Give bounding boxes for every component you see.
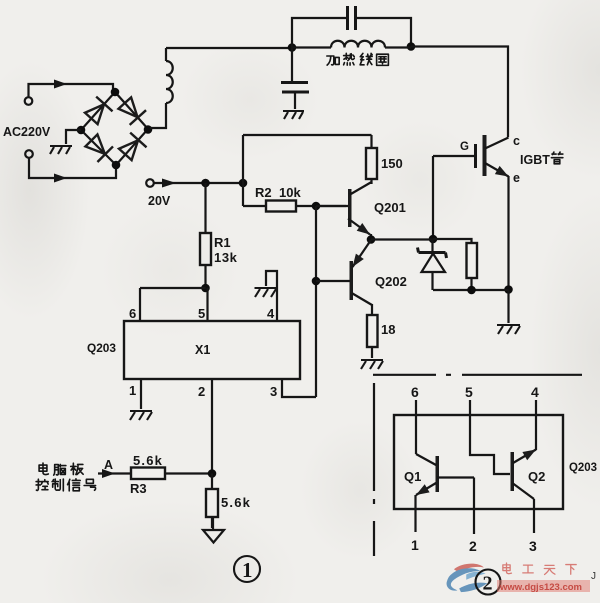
ground (pin1) <box>130 411 152 420</box>
label pin 6 <box>129 306 136 321</box>
wire <box>292 46 331 48</box>
inductor L1 (filter choke) <box>166 61 173 103</box>
wire <box>204 183 206 233</box>
svg-text:1: 1 <box>242 558 253 582</box>
dashed border top (Q203 detail) <box>373 374 582 376</box>
wire <box>211 517 213 528</box>
svg-text:c: c <box>513 134 520 148</box>
node bridge top <box>111 88 120 97</box>
wire pin6 <box>139 288 141 321</box>
node R1 top <box>201 179 210 188</box>
label pin 5 (pkg) <box>465 384 473 400</box>
diode D2 (top-right) <box>117 96 146 125</box>
node divider <box>208 469 217 478</box>
resistor Rg (gate) <box>467 243 478 290</box>
label pin 1 (pkg) <box>411 537 419 553</box>
svg-text:1: 1 <box>411 537 419 553</box>
watermark logo swirl <box>447 564 488 592</box>
svg-text:Q201: Q201 <box>374 200 406 215</box>
IC X1 box <box>124 321 300 379</box>
label Q203 (left of X1) <box>87 341 116 355</box>
node pin5 <box>201 284 210 293</box>
svg-text:6: 6 <box>129 306 136 321</box>
svg-text:Q1: Q1 <box>404 469 421 484</box>
ground (R18) <box>361 360 383 369</box>
arrow (current direction, neutral) <box>54 174 67 183</box>
wire <box>154 182 243 184</box>
diode D1 (top-left) <box>83 97 112 126</box>
resistor R4 5.6k <box>206 489 218 517</box>
label 5.6k (R3) <box>133 453 163 468</box>
arrow (20V feed) <box>162 179 176 188</box>
label pin 2 (pkg) <box>469 538 477 554</box>
label 5.6k (R4) <box>221 495 251 510</box>
wire base/pin3 vertical <box>315 206 317 397</box>
node bridge bottom <box>112 161 121 170</box>
wire <box>292 18 346 48</box>
label R1 <box>214 235 231 250</box>
wire <box>371 304 373 315</box>
svg-text:Q203: Q203 <box>569 460 597 474</box>
capacitor C2 (bus filter) <box>281 83 309 93</box>
transistor Q201 <box>316 182 372 239</box>
label AC220V <box>3 125 51 139</box>
node emitters <box>367 235 376 244</box>
svg-text:3: 3 <box>270 384 277 399</box>
label pin 5 <box>198 306 205 321</box>
wire riser to top rail <box>242 135 244 206</box>
wire pin2 (pkg) <box>473 478 475 535</box>
node 20V riser <box>239 179 248 188</box>
label pin 4 (pkg) <box>531 384 539 400</box>
svg-text:5.6k: 5.6k <box>221 495 251 510</box>
svg-text:R2: R2 <box>255 185 272 200</box>
wire <box>507 290 509 324</box>
diode D4 (bottom-right) <box>117 133 146 162</box>
svg-text:AC220V: AC220V <box>3 125 51 139</box>
wire <box>29 158 116 178</box>
wire pin1 <box>140 379 142 409</box>
svg-text:18: 18 <box>381 322 395 337</box>
svg-text:R3: R3 <box>130 481 147 496</box>
label 150 <box>381 156 403 171</box>
label 加热线圈 (heating coil) <box>327 53 389 65</box>
label 20V <box>148 194 171 208</box>
svg-text:3: 3 <box>529 538 537 554</box>
ground arrow (signal return) <box>203 517 224 543</box>
wire <box>357 18 411 46</box>
svg-text:IGBT: IGBT <box>520 153 550 167</box>
label A <box>104 458 113 472</box>
terminal T2 (AC neutral) <box>25 150 33 158</box>
stray mark J <box>591 571 596 582</box>
wire pin1 (pkg) <box>414 495 416 532</box>
wire pin6 (pkg) <box>415 400 417 454</box>
label c <box>513 134 520 148</box>
svg-text:6: 6 <box>411 384 419 400</box>
diode D3 (bottom-left) <box>84 133 113 162</box>
label R2 10k <box>255 185 301 200</box>
wire <box>433 289 509 291</box>
watermark url banner <box>497 580 590 593</box>
wire <box>204 265 206 288</box>
svg-text:A: A <box>104 458 113 472</box>
svg-text:2: 2 <box>198 384 205 399</box>
svg-text:www.dgjs123.com: www.dgjs123.com <box>499 582 582 593</box>
svg-text:5.6k: 5.6k <box>133 453 163 468</box>
svg-text:5: 5 <box>465 384 473 400</box>
transistor Q2 <box>511 450 537 500</box>
label Q2 <box>528 469 545 484</box>
label 18 <box>381 322 395 337</box>
wire top rail <box>243 134 372 136</box>
svg-text:150: 150 <box>381 156 403 171</box>
svg-text:2: 2 <box>483 573 493 595</box>
Q203 package box <box>394 415 563 509</box>
resistor R3 <box>131 468 165 480</box>
label pin 4 <box>267 306 275 321</box>
svg-text:J: J <box>591 571 596 582</box>
svg-text:1: 1 <box>129 383 136 398</box>
svg-text:Q203: Q203 <box>87 341 116 355</box>
label circled 2 <box>476 570 501 595</box>
wire <box>411 47 508 138</box>
capacitor C1 (resonant) <box>348 6 356 30</box>
svg-text:Q2: Q2 <box>528 469 545 484</box>
wire pin3 (pkg) <box>533 499 535 533</box>
label 13k <box>214 250 238 265</box>
node base Q202 <box>312 277 321 286</box>
bridge rectifier diamond wires <box>81 92 148 165</box>
ground (bridge negative) <box>50 146 72 154</box>
wire <box>433 239 472 243</box>
wire <box>211 474 213 490</box>
svg-text:4: 4 <box>267 306 275 321</box>
wire pin3 <box>282 379 316 397</box>
label IGBT管 <box>520 152 563 167</box>
label 控制信号 (control signal) <box>36 479 95 491</box>
label R3 <box>130 481 147 496</box>
svg-text:2: 2 <box>469 538 477 554</box>
wire <box>371 348 373 358</box>
label pin 3 <box>270 384 277 399</box>
wire <box>98 472 131 474</box>
wire <box>291 48 293 82</box>
node gate clamp <box>429 235 438 244</box>
wire IGBT emitter down <box>507 176 509 289</box>
transistor Q1 <box>416 454 474 495</box>
node bridge left <box>77 126 86 135</box>
wire <box>370 179 372 184</box>
svg-text:20V: 20V <box>148 194 171 208</box>
wire <box>29 84 114 97</box>
label Q201 <box>374 200 406 215</box>
wire <box>294 94 296 110</box>
terminal T1 (AC live) <box>25 97 33 105</box>
terminal 20V <box>146 179 154 187</box>
ground (pin4) <box>255 288 277 297</box>
svg-text:G: G <box>460 141 469 153</box>
node tank right <box>407 42 416 51</box>
label 电脑板 (computer board) <box>39 463 83 475</box>
ground (C2) <box>283 111 304 119</box>
zener diode VD (gate clamp) <box>418 239 447 291</box>
watermark 电工天下 <box>503 563 576 574</box>
svg-text:R1: R1 <box>214 235 231 250</box>
wire pin4 (pkg) <box>535 400 537 450</box>
label pin 1 <box>129 383 136 398</box>
wire pin6 loop <box>140 287 206 289</box>
svg-text:10k: 10k <box>279 185 301 200</box>
svg-text:Q202: Q202 <box>375 274 407 289</box>
arrow (current direction, live) <box>54 80 67 89</box>
label pin 3 (pkg) <box>529 538 537 554</box>
wire pin2 <box>211 379 213 474</box>
wire gate vertical <box>432 156 434 239</box>
resistor R18 <box>367 315 378 347</box>
resistor R2 <box>266 201 296 212</box>
svg-text:13k: 13k <box>214 250 238 265</box>
svg-text:5: 5 <box>198 306 205 321</box>
ground (IGBT emitter) <box>497 325 520 334</box>
wire <box>385 46 411 48</box>
label X1 <box>195 343 210 357</box>
svg-text:e: e <box>513 171 520 185</box>
svg-text:X1: X1 <box>195 343 210 357</box>
wire pin4 <box>266 271 277 321</box>
wire <box>296 205 346 207</box>
label pin 6 (pkg) <box>411 384 419 400</box>
label Q1 <box>404 469 421 484</box>
wire <box>166 47 292 49</box>
wire <box>243 205 266 207</box>
label Q203 (pkg) <box>569 460 597 474</box>
label e <box>513 171 520 185</box>
wire <box>165 472 212 474</box>
dashed border left (Q203 detail) <box>373 383 375 556</box>
label G <box>460 141 469 153</box>
node emitter junction <box>504 285 513 294</box>
inductor L2 (heating coil) <box>331 41 385 48</box>
svg-text:4: 4 <box>531 384 539 400</box>
wire <box>150 48 166 128</box>
label pin 2 <box>198 384 205 399</box>
label Q202 <box>375 274 407 289</box>
wire pin5 (pkg) with jog <box>470 400 510 474</box>
IGBT V1 <box>433 135 509 177</box>
wire <box>66 130 81 144</box>
label circled 1 <box>234 556 260 582</box>
transistor Q202 <box>316 240 372 305</box>
arrow (signal in) <box>102 469 115 478</box>
resistor R1 <box>200 233 211 265</box>
node bridge right <box>144 125 153 134</box>
wire <box>371 238 433 240</box>
wire <box>370 135 372 147</box>
wire pin5 <box>206 288 208 321</box>
node tank left <box>288 43 297 52</box>
resistor R150 <box>366 148 377 179</box>
node base Q201 <box>312 202 321 211</box>
node <box>467 286 476 295</box>
